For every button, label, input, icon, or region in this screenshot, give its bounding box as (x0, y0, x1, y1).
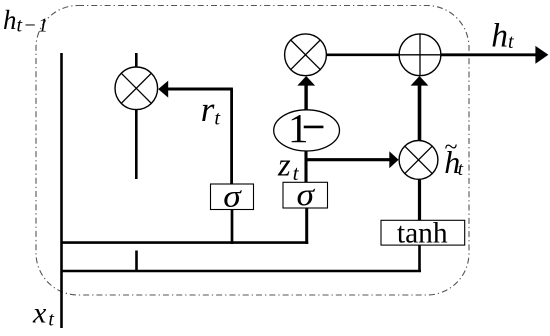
svg-text:σ: σ (223, 178, 242, 214)
svg-text:−: − (302, 104, 325, 150)
svg-text:~: ~ (445, 134, 458, 160)
svg-text:tanh: tanh (397, 217, 448, 249)
